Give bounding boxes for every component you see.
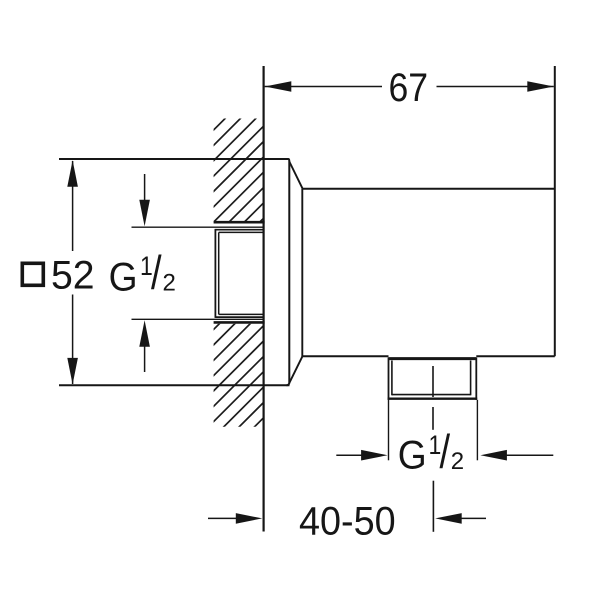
svg-text:/: / [151, 247, 162, 300]
svg-text:2: 2 [163, 270, 176, 297]
flange chamfer top [289, 162, 302, 189]
outlet thread right outer [475, 358, 477, 400]
G1/2 inlet label [109, 247, 176, 300]
inlet thread bottom outer [215, 316, 263, 318]
wall hole bottom edge [214, 321, 265, 324]
outlet centerline dashes [432, 366, 434, 397]
body right edge (also 67 extension line) [554, 66, 556, 356]
inlet thread bottom inner [219, 313, 264, 315]
outlet thread bottom outer [388, 398, 478, 400]
body bottom edge right segment [476, 355, 555, 357]
outlet G1/2 extension line right [476, 400, 478, 460]
wall hole top edge [214, 221, 265, 224]
svg-text:G: G [109, 255, 138, 300]
outlet G1/2 label [398, 426, 464, 479]
52 dimension line upper part [72, 161, 74, 251]
67 arrow right [527, 81, 554, 92]
svg-text:2: 2 [451, 448, 464, 475]
inlet thread top inner [219, 231, 264, 233]
G1/2 inlet leader top [132, 226, 264, 228]
40-50 right arrow [461, 517, 487, 519]
svg-text:40-50: 40-50 [299, 500, 396, 544]
G1/2 inlet lower arrow [144, 344, 146, 372]
outlet thread left inner [391, 361, 393, 396]
outlet G1/2 right arrow [506, 454, 553, 456]
40-50 left arrow [208, 517, 236, 519]
G1/2 inlet leader bottom [132, 318, 264, 320]
outlet thread top band [389, 357, 477, 360]
wall face line [263, 66, 265, 532]
outlet G1/2 extension line left [388, 400, 390, 460]
svg-text:/: / [440, 426, 451, 479]
flange bottom edge (extension line for 52) [59, 384, 290, 386]
body top edge [302, 188, 555, 190]
52 arrow up [67, 160, 78, 187]
inlet thread left inner [218, 232, 220, 314]
inlet thread top outer [215, 229, 263, 231]
outlet G1/2 left arrow [336, 454, 362, 456]
square symbol [22, 263, 43, 285]
svg-text:67: 67 [389, 66, 429, 110]
67 arrow left [265, 81, 292, 92]
52 arrow down [67, 358, 78, 385]
svg-text:52: 52 [51, 253, 95, 297]
outlet centerline extension (solid) [432, 481, 434, 532]
67 dimension line right segment [437, 86, 554, 88]
flange top edge (extension line for 52) [59, 158, 289, 160]
outlet thread right inner [470, 361, 472, 396]
outlet thread bottom inner [392, 394, 471, 396]
outlet thread left outer [388, 358, 390, 400]
67 dimension line left segment [265, 86, 382, 88]
G1/2 inlet upper arrow [144, 174, 146, 202]
body bottom edge left segment [302, 355, 388, 357]
svg-text:G: G [398, 433, 427, 478]
flange face [287, 159, 290, 385]
flange chamfer bottom [289, 357, 302, 383]
inlet thread left outer [214, 229, 216, 318]
52 dimension line lower part [72, 295, 74, 385]
body cone junction [301, 189, 303, 357]
